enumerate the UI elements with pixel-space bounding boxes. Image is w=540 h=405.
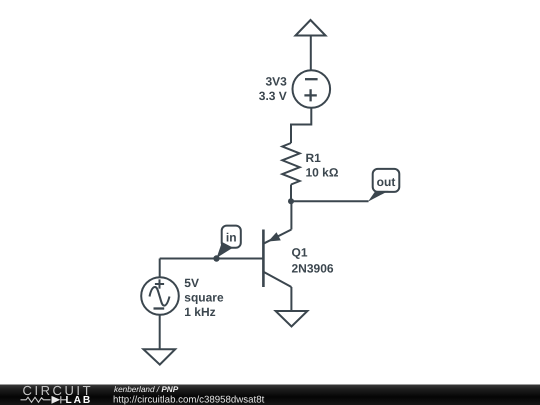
in flag pointer — [217, 242, 233, 258]
footer bar — [0, 385, 540, 405]
svg-text:http://circuitlab.com/c38958dw: http://circuitlab.com/c38958dwsat8t — [113, 395, 265, 405]
svg-text:square: square — [184, 291, 224, 305]
V2 minus sign — [154, 307, 165, 309]
svg-text:3V3: 3V3 — [265, 75, 287, 89]
wire V2 bottom to ground — [159, 315, 161, 349]
out flag pointer — [368, 191, 389, 202]
svg-text:3.3 V: 3.3 V — [259, 89, 287, 103]
svg-text:in: in — [226, 231, 237, 245]
logo resistor-diode glyph — [21, 396, 67, 403]
wire R1 bottom to collector node — [290, 185, 292, 202]
svg-text:1 kHz: 1 kHz — [184, 305, 215, 319]
svg-text:Q1: Q1 — [292, 246, 308, 260]
Q1 emitter diagonal — [263, 230, 291, 244]
out flag box — [373, 169, 400, 192]
voltage source V2 circle — [141, 277, 179, 315]
resistor R1 zigzag — [282, 143, 299, 185]
svg-text:10 kΩ: 10 kΩ — [306, 165, 339, 179]
wire V1 bottom jog to resistor — [291, 108, 311, 143]
Q1 collector diagonal — [263, 272, 291, 287]
junction node out — [288, 198, 294, 204]
svg-text:R1: R1 — [306, 151, 322, 165]
svg-text:2N3906: 2N3906 — [292, 262, 334, 276]
Q1 emitter arrow — [268, 232, 281, 241]
svg-text:5V: 5V — [184, 276, 199, 290]
ground under V2 — [143, 349, 175, 364]
V1 minus sign — [305, 78, 318, 80]
V2 plus sign — [155, 279, 164, 288]
wire VCC to V1 top — [310, 36, 312, 71]
transistor Q1 base bar — [262, 230, 265, 288]
wire emitter vertical — [290, 201, 292, 229]
logo diode triangle — [52, 396, 61, 404]
svg-text:LAB: LAB — [66, 395, 93, 405]
svg-text:out: out — [377, 175, 396, 189]
VCC power symbol — [296, 20, 326, 36]
wire node to out flag — [291, 200, 369, 202]
svg-text:kenberland / PNP: kenberland / PNP — [114, 385, 179, 394]
V2 sine wave — [150, 287, 170, 306]
wire V2 top — [159, 259, 161, 278]
wire base from in node to Q1 — [160, 258, 264, 260]
junction node in — [213, 255, 219, 261]
in flag box — [222, 226, 241, 248]
V1 plus sign — [304, 89, 316, 101]
wire collector vertical to ground — [290, 287, 292, 311]
voltage source V1 3V3 circle — [293, 70, 331, 108]
ground under Q1 — [276, 311, 308, 327]
